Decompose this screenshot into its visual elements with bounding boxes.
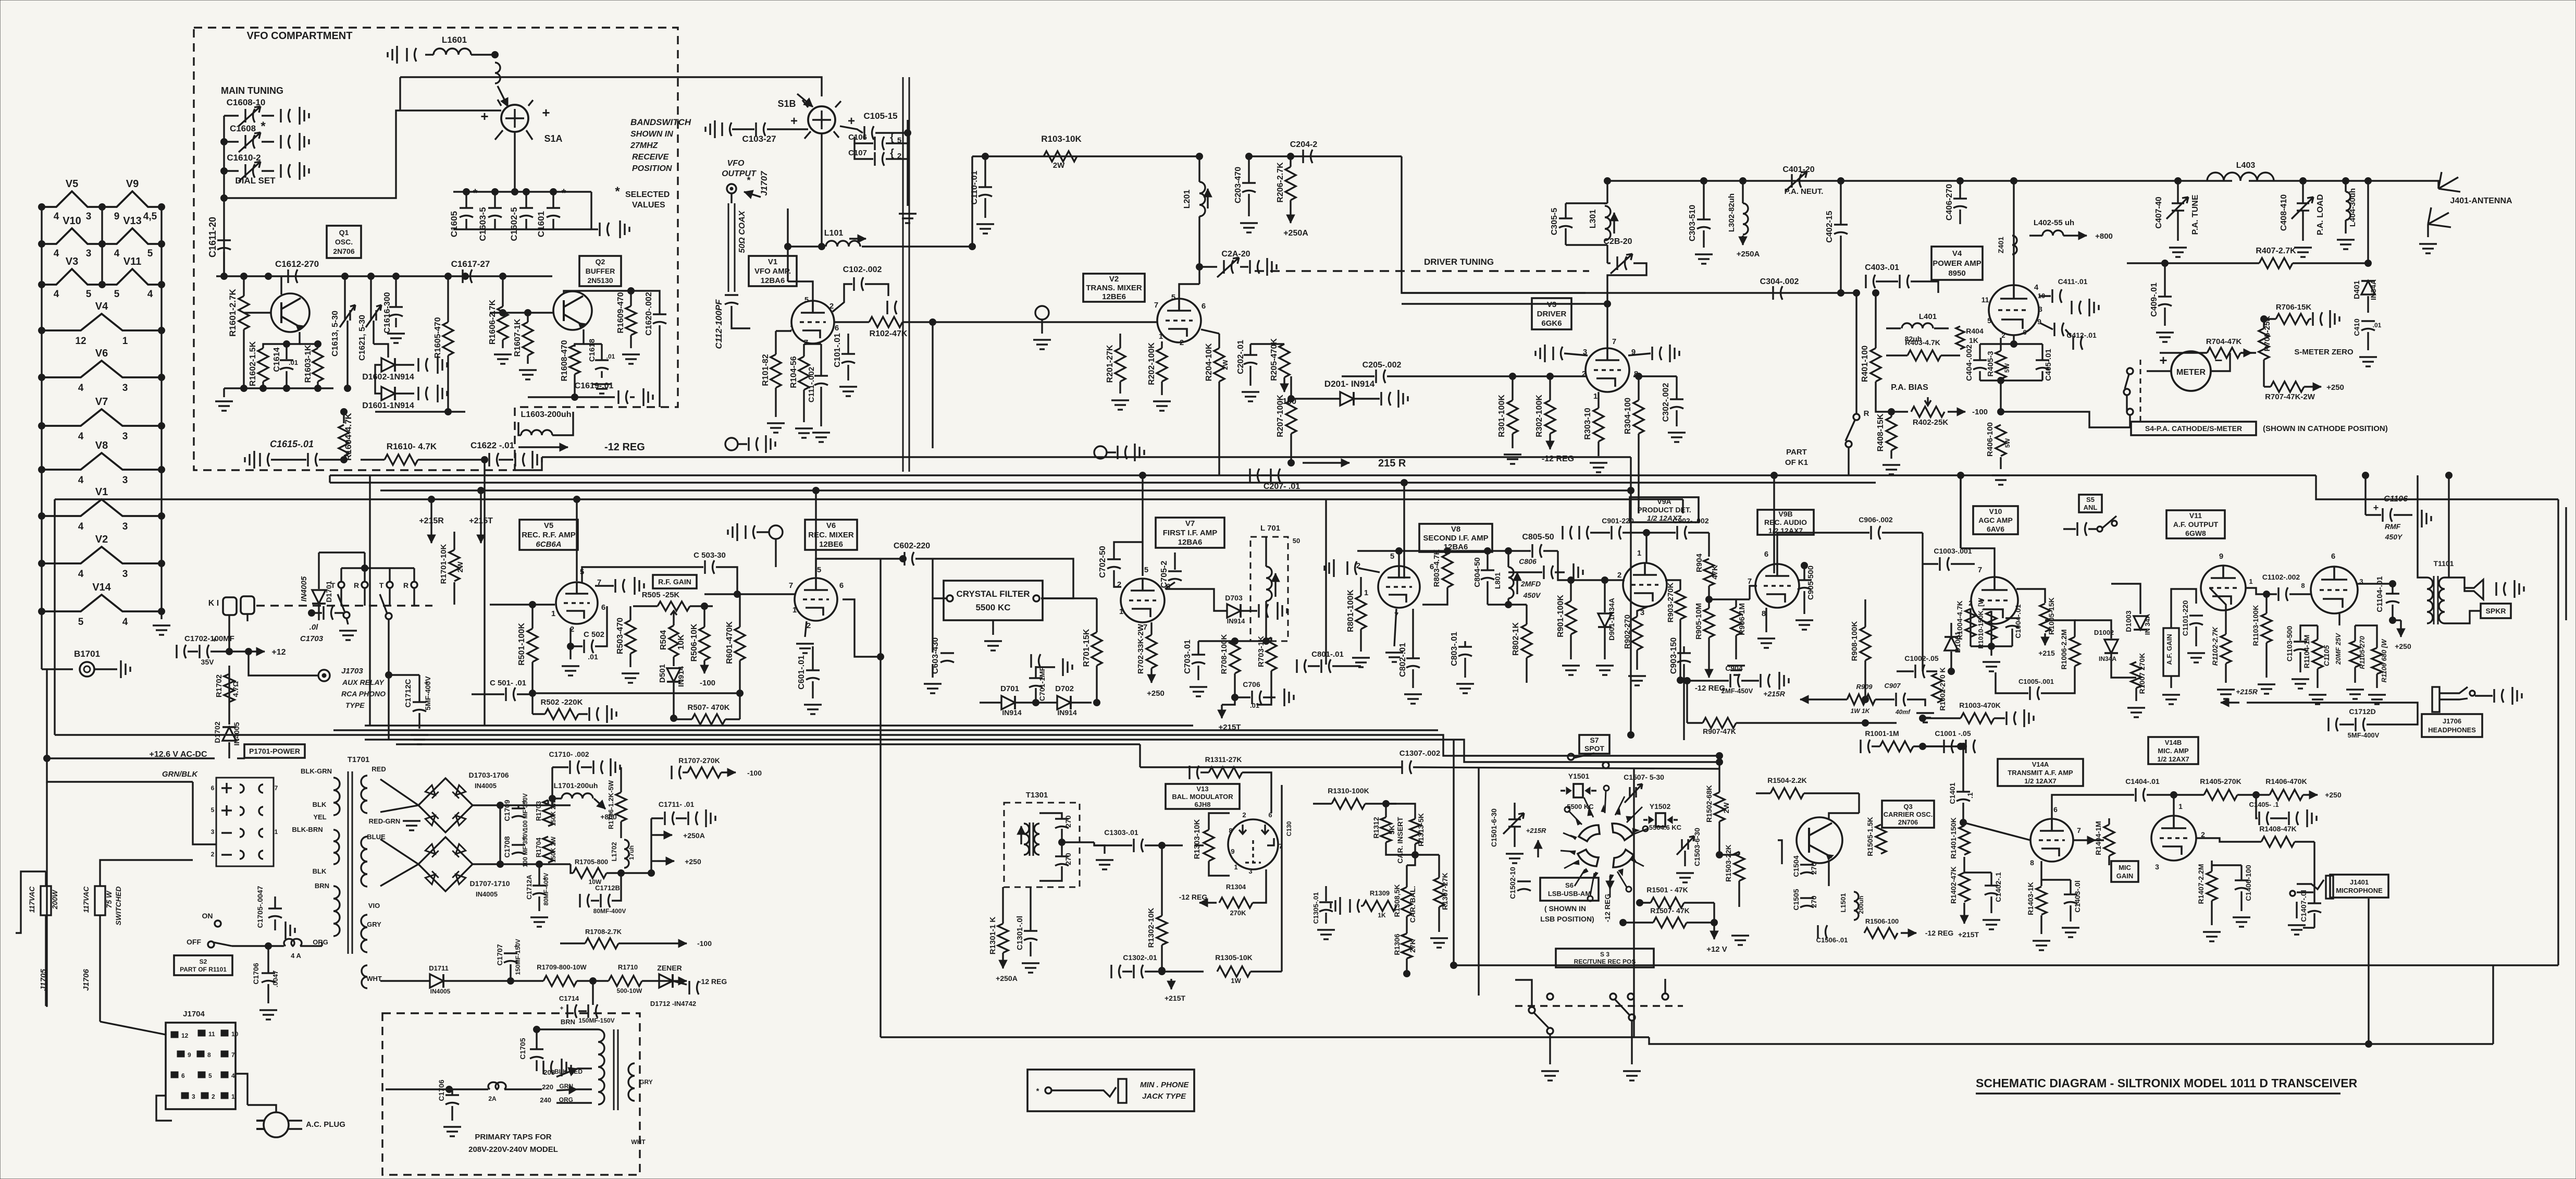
resistor R908-100K — [1860, 627, 1871, 660]
wire trunk A — [542, 456, 1631, 458]
wire — [2354, 625, 2356, 641]
resistor R1601-2.7K — [239, 296, 249, 329]
wire — [650, 818, 652, 873]
wire — [375, 365, 381, 394]
svg-text:R1312: R1312 — [1372, 817, 1380, 838]
junction — [99, 281, 106, 288]
wire C304 line — [1402, 292, 1855, 293]
wire D1002 bottom — [2111, 654, 2136, 678]
arrow -100 — [672, 942, 687, 944]
wire — [1360, 629, 1361, 652]
tube heater V7 — [42, 409, 162, 426]
arrow +800 — [2063, 235, 2087, 236]
svg-text:METER: METER — [2176, 368, 2206, 377]
wire — [1030, 942, 1031, 956]
junction — [813, 487, 820, 494]
wire V2 grid line — [933, 321, 1157, 323]
wire R1306 bottom — [1406, 959, 1407, 974]
wire — [395, 276, 397, 306]
wire — [2174, 794, 2204, 795]
wire — [633, 605, 658, 607]
ground V8 cath — [1385, 653, 1403, 662]
svg-text:L201: L201 — [1183, 190, 1192, 209]
svg-text:R304-100: R304-100 — [1624, 398, 1632, 434]
arrow +12 — [251, 650, 265, 652]
svg-text:Y1502: Y1502 — [1650, 802, 1671, 810]
wire K1c down — [388, 619, 389, 740]
capacitor C901-220 — [1612, 526, 1621, 539]
wire — [674, 718, 692, 720]
svg-text:R1305-10K: R1305-10K — [1215, 953, 1253, 962]
wire — [2317, 625, 2318, 640]
wire — [267, 984, 269, 1003]
wire — [2249, 180, 2418, 181]
wire — [1819, 698, 1847, 700]
svg-text:4.7Ω: 4.7Ω — [231, 681, 240, 697]
svg-text:S4-P.A. CATHODE/S-METER: S4-P.A. CATHODE/S-METER — [2145, 424, 2242, 433]
svg-text:C805-50: C805-50 — [1522, 533, 1554, 542]
svg-text:J1401: J1401 — [2350, 878, 2369, 886]
junction — [315, 341, 321, 348]
arrow 215R — [1303, 462, 1349, 463]
resistor R1302-10K — [1157, 916, 1167, 945]
svg-text:150MF-150V: 150MF-150V — [578, 1017, 614, 1024]
jack symbol mid — [1035, 306, 1049, 320]
wire — [620, 767, 622, 792]
svg-text:V13: V13 — [123, 215, 142, 227]
svg-text:-12 REG: -12 REG — [1603, 894, 1612, 923]
resistor R408-15K — [1886, 417, 1897, 450]
wire — [268, 945, 284, 947]
capacitor C304-.002 — [1773, 286, 1782, 300]
junction — [245, 648, 252, 655]
wire — [2177, 181, 2178, 203]
tube V10 — [1971, 577, 2018, 624]
svg-text:3: 3 — [122, 521, 128, 532]
wire — [223, 388, 225, 397]
svg-text:R1607-1K: R1607-1K — [513, 318, 522, 357]
junction — [930, 319, 936, 326]
junction — [1637, 900, 1643, 906]
resistor R302-100K — [1545, 400, 1555, 434]
wire — [1959, 181, 1961, 198]
capacitor C1610-2 — [245, 164, 255, 178]
svg-text:AGC AMP: AGC AMP — [1978, 516, 2013, 524]
svg-text:GAIN: GAIN — [2116, 872, 2134, 880]
svg-text:200uh: 200uh — [1857, 896, 1865, 914]
capacitor capacitor C1605 — [460, 208, 473, 217]
junction — [1771, 472, 1778, 479]
svg-text:9: 9 — [114, 211, 120, 222]
capacitor capacitor C1603-5 — [488, 208, 502, 217]
wire — [630, 396, 635, 398]
svg-text:GRY: GRY — [639, 1078, 653, 1086]
resistor R1311-27K — [1209, 767, 1242, 778]
wire — [812, 646, 813, 670]
svg-text:.01: .01 — [2373, 322, 2382, 329]
wire — [601, 344, 602, 360]
svg-text:6: 6 — [2331, 552, 2335, 561]
svg-text:5W: 5W — [2003, 363, 2011, 373]
wire — [2240, 891, 2242, 911]
junction — [1716, 753, 1723, 759]
svg-text:3: 3 — [2038, 305, 2042, 313]
box J1706 HEADPHONES — [2422, 714, 2482, 737]
wire — [1640, 902, 1651, 903]
resistor R405-3 — [1996, 351, 2006, 379]
wire coax from S1B — [903, 77, 909, 472]
svg-text:C205-.002: C205-.002 — [1363, 361, 1402, 370]
svg-text:C1707: C1707 — [496, 944, 504, 965]
resistor R1506-100 — [1864, 928, 1898, 938]
wire — [1922, 533, 1923, 564]
wire — [1265, 537, 1267, 567]
svg-text:J1706: J1706 — [2443, 717, 2461, 725]
svg-text:R1503-22K: R1503-22K — [1724, 844, 1732, 882]
tube heater V14 — [42, 595, 162, 611]
inductor L402-55uh — [2042, 230, 2063, 236]
wire — [984, 156, 986, 187]
svg-text:R1104-1M: R1104-1M — [2302, 635, 2311, 669]
svg-text:3: 3 — [192, 1093, 195, 1100]
svg-text:C1615-.01: C1615-.01 — [270, 439, 314, 449]
junction — [1094, 699, 1100, 706]
capacitor C409-.01 — [2158, 297, 2172, 306]
wire — [1036, 666, 1055, 668]
svg-text:7: 7 — [275, 784, 278, 792]
svg-text:Z401: Z401 — [1997, 237, 2005, 253]
jack to ground — [725, 438, 738, 450]
svg-text:A.F. GAIN: A.F. GAIN — [2165, 634, 2173, 665]
svg-text:6AV6: 6AV6 — [1987, 525, 2004, 533]
wire V9B plate — [1773, 475, 1775, 573]
svg-text:11: 11 — [1981, 296, 1989, 304]
rectifier D1707-1710 — [418, 837, 473, 891]
wire — [1197, 641, 1199, 654]
junction — [590, 978, 597, 985]
ground D201 — [1398, 390, 1408, 408]
wire — [465, 219, 467, 229]
resistor R1312 — [1381, 817, 1391, 842]
junction — [648, 870, 655, 877]
svg-text:IN4005: IN4005 — [475, 782, 497, 790]
svg-text:C408-410: C408-410 — [2280, 194, 2288, 231]
wire — [2000, 379, 2001, 396]
svg-text:R1302-10K: R1302-10K — [1147, 907, 1156, 948]
wire — [2011, 629, 2013, 646]
svg-text:C1403-.0l: C1403-.0l — [2073, 880, 2082, 912]
svg-text:C1104-.01: C1104-.01 — [2375, 576, 2384, 612]
capacitor C1709 — [512, 808, 525, 818]
svg-text:D1701: D1701 — [325, 581, 333, 602]
arrow L701 — [1274, 573, 1276, 597]
pin J1704-9 — [177, 1051, 184, 1057]
resistor R301-100K — [1507, 400, 1518, 434]
wire Q2 base — [490, 312, 553, 313]
svg-text:C901-220: C901-220 — [1602, 517, 1634, 525]
svg-text:TRANSMIT A.F. AMP: TRANSMIT A.F. AMP — [2008, 769, 2073, 777]
junction — [1059, 839, 1066, 846]
junction — [221, 139, 228, 145]
arrow -12 REG — [672, 980, 687, 981]
svg-text:YEL: YEL — [313, 813, 326, 821]
wire — [2029, 235, 2042, 236]
svg-text:1: 1 — [1593, 392, 1597, 401]
ground — [300, 107, 309, 125]
wire — [2313, 842, 2315, 903]
diode D1712-1N4742 — [659, 974, 673, 988]
svg-text:4,5: 4,5 — [143, 211, 157, 222]
svg-text:8: 8 — [1229, 827, 1232, 834]
wire — [676, 817, 687, 819]
antenna J401 — [2418, 172, 2460, 192]
junction — [1701, 178, 1707, 185]
wire — [1218, 382, 1220, 475]
ground — [300, 162, 309, 180]
capacitor — [2494, 689, 2504, 703]
capacitor — [689, 981, 699, 994]
arrow +215T — [1170, 979, 1172, 989]
svg-text:C1712B: C1712B — [595, 884, 620, 892]
wire — [2445, 611, 2481, 623]
junction — [393, 273, 400, 280]
wire — [2147, 795, 2174, 816]
capacitor C1707 — [504, 953, 517, 963]
wire — [1606, 181, 1608, 203]
svg-text:V7: V7 — [95, 396, 108, 408]
capacitor C205-.002 — [1376, 370, 1385, 383]
junction — [1232, 694, 1239, 701]
wire — [1291, 398, 1340, 399]
rectifier D1703-1706 — [418, 778, 473, 832]
wire — [510, 964, 511, 981]
svg-text:R901-100K: R901-100K — [1556, 595, 1565, 637]
svg-text:17uh: 17uh — [628, 845, 635, 860]
ground — [443, 1127, 461, 1136]
wire — [992, 620, 994, 635]
svg-text:12: 12 — [181, 1032, 189, 1039]
svg-text:C1617-27: C1617-27 — [451, 259, 490, 269]
wire — [805, 621, 807, 637]
arrow pot — [2087, 839, 2096, 841]
capacitor C802-.01 — [1406, 658, 1420, 668]
wire — [1687, 922, 1714, 923]
svg-text:R1404-1M: R1404-1M — [2094, 821, 2102, 855]
box SPKR — [2481, 604, 2511, 618]
svg-text:450V: 450V — [1523, 591, 1541, 599]
svg-text:R907-47K: R907-47K — [1703, 727, 1736, 735]
wire L201 down — [1198, 216, 1200, 284]
capacitor C1711-.01 — [665, 812, 674, 825]
svg-text:10: 10 — [231, 1030, 239, 1038]
wire — [1487, 581, 1488, 605]
svg-text:RECEIVE: RECEIVE — [632, 153, 670, 162]
svg-text:C906-.002: C906-.002 — [1859, 515, 1893, 524]
wire — [1922, 564, 1923, 671]
wire — [577, 1088, 592, 1090]
arrow 208 — [556, 1069, 577, 1077]
wire — [1990, 896, 1992, 913]
svg-text:C1502-10: C1502-10 — [1508, 867, 1517, 899]
svg-text:C706: C706 — [1243, 680, 1260, 689]
junction — [158, 466, 165, 473]
svg-text:C703-.01: C703-.01 — [1183, 640, 1192, 674]
wire — [834, 321, 869, 323]
wire — [582, 567, 703, 582]
resistor R104-56 — [799, 357, 809, 390]
svg-text:C1702-100MF: C1702-100MF — [184, 634, 234, 643]
svg-text:75 W: 75 W — [105, 890, 113, 908]
wire — [1565, 228, 1566, 245]
wire — [1412, 669, 1414, 688]
wire — [2063, 528, 2076, 530]
junction — [1853, 290, 1860, 297]
svg-text:B1701: B1701 — [74, 649, 100, 659]
capacitor C401-20 — [1792, 174, 1801, 188]
junction — [2263, 591, 2270, 598]
ground R1104 — [2309, 695, 2326, 704]
svg-text:1: 1 — [2178, 802, 2183, 810]
tube heater V4 — [42, 314, 162, 330]
capacitor C103-27 — [756, 122, 765, 136]
resistor R202-100K — [1157, 348, 1167, 382]
arrow +250A — [1742, 236, 1743, 245]
box P1701 POWER — [244, 744, 305, 758]
wire — [536, 1060, 537, 1071]
wire trunk B to right — [2316, 475, 2558, 499]
wire — [1604, 203, 1605, 204]
junction — [315, 385, 321, 392]
wire T1101 feed — [2448, 475, 2449, 578]
pin J1704-2 — [201, 1092, 208, 1099]
capacitor C1714 — [588, 1004, 598, 1018]
wire — [2041, 371, 2043, 380]
ground C1503 — [1676, 873, 1694, 882]
svg-text:C105-15: C105-15 — [863, 111, 897, 121]
fuse 4A — [284, 939, 302, 946]
wire — [1964, 871, 1991, 873]
svg-text:+215T: +215T — [1958, 930, 1979, 939]
wire — [1487, 551, 1488, 570]
svg-text:1: 1 — [1637, 549, 1641, 558]
capacitor C406-270 — [1953, 199, 1967, 208]
svg-text:WHT: WHT — [631, 1138, 646, 1146]
tube V2 — [1157, 299, 1201, 342]
junction — [500, 310, 506, 316]
wire C1307 line — [1140, 766, 1402, 768]
inductor L1501 — [1854, 892, 1859, 920]
wire — [1145, 844, 1183, 846]
wire — [2309, 318, 2311, 320]
wire — [1963, 857, 1965, 873]
resistor R1703 — [543, 800, 553, 826]
wire — [833, 284, 852, 312]
svg-text:R1706-1.2K-5W: R1706-1.2K-5W — [607, 780, 615, 829]
ground C2A — [1267, 258, 1277, 276]
wire — [618, 942, 672, 944]
svg-text:C907: C907 — [1884, 682, 1901, 690]
wire — [193, 782, 216, 844]
resistor R1309 — [1363, 901, 1396, 911]
svg-text:R1610- 4.7K: R1610- 4.7K — [387, 441, 437, 451]
wire — [552, 192, 554, 207]
capacitor C1501 variable — [1503, 813, 1524, 834]
svg-text:-12 REG: -12 REG — [1925, 929, 1954, 937]
wire V7 plate — [1142, 475, 1143, 576]
wire — [1742, 181, 1743, 203]
wire — [556, 1102, 592, 1103]
junction — [1684, 678, 1691, 684]
svg-text:C1618: C1618 — [588, 339, 597, 362]
capacitor C1705 taps — [530, 1049, 543, 1059]
ground R1606 — [494, 354, 512, 364]
wire trunk C — [330, 482, 1876, 483]
box V1 VFO AMP 12BA6 — [749, 256, 797, 286]
ground R1103 — [2258, 684, 2275, 694]
svg-text:T1101: T1101 — [2434, 559, 2454, 568]
svg-text:C1705: C1705 — [518, 1038, 527, 1059]
svg-text:SECOND I.F. AMP: SECOND I.F. AMP — [1423, 534, 1488, 543]
svg-text:L1701-200uh: L1701-200uh — [554, 781, 598, 790]
capacitor C905-500 — [1798, 580, 1811, 590]
wire to V9B grid — [1709, 598, 1750, 600]
capacitor — [1553, 347, 1563, 360]
svg-text:C 502: C 502 — [584, 630, 604, 639]
resistor R406-100 — [1996, 425, 2006, 456]
resistor R403-4.7K — [1908, 350, 1941, 361]
junction — [1677, 677, 1684, 684]
svg-text:{: { — [890, 148, 894, 159]
svg-text:D201- IN914: D201- IN914 — [1324, 379, 1375, 389]
svg-text:C905-500: C905-500 — [1806, 566, 1815, 600]
pin J1704-4 — [221, 1072, 228, 1078]
capacitor C1401 — [1956, 792, 1970, 801]
wire L101 right — [862, 245, 972, 247]
svg-text:R1704: R1704 — [535, 837, 542, 857]
wire — [447, 355, 449, 412]
wire to V14A grid — [1963, 822, 2030, 840]
resistor R1706-1.2K — [616, 792, 626, 821]
wire coax C112 — [728, 203, 735, 292]
wire — [346, 618, 348, 624]
wire top tap — [399, 77, 401, 110]
svg-text:4: 4 — [78, 475, 84, 486]
svg-text:500-10W: 500-10W — [617, 987, 642, 994]
wire — [1708, 599, 1710, 608]
wire — [517, 805, 519, 808]
capacitor — [1250, 260, 1259, 274]
wire — [1604, 580, 1605, 612]
wire — [531, 605, 533, 629]
wire — [532, 713, 545, 715]
wire S1A rotor down — [514, 132, 515, 177]
tube heater V2 — [42, 547, 162, 563]
wire — [370, 276, 371, 310]
capacitor — [1031, 654, 1041, 668]
wire S1B to L101 — [822, 133, 824, 247]
svg-text:RED-GRN: RED-GRN — [369, 817, 401, 825]
wire — [418, 459, 485, 460]
svg-text:J1703: J1703 — [341, 667, 363, 676]
svg-text:R1602-1.5K: R1602-1.5K — [249, 341, 257, 386]
inductor Z401 — [2012, 236, 2017, 254]
wire — [1756, 792, 1770, 794]
pin J1704-6 — [171, 1072, 178, 1078]
wire — [1735, 599, 1737, 607]
svg-text:R507- 470K: R507- 470K — [688, 703, 730, 712]
svg-text:V2: V2 — [1109, 275, 1119, 284]
wire — [361, 459, 385, 460]
